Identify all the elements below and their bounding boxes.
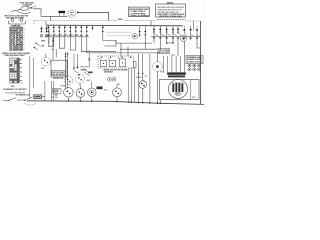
- relay coil dashed circles: [64, 76, 72, 84]
- dashed circle TB: [68, 10, 75, 17]
- drain valve wires: [139, 54, 143, 102]
- wire fuse to right: [29, 8, 41, 16]
- wire TB right, corner down: [77, 12, 109, 20]
- motor terminal box top right: [186, 56, 203, 64]
- svg-text:3 REPLACEMENT: 3 REPLACEMENT: [129, 14, 150, 17]
- wire to TCO: [41, 15, 67, 17]
- bottom bus: [27, 101, 204, 105]
- svg-text:MTR: MTR: [41, 40, 46, 42]
- svg-text:MOT: MOT: [176, 94, 179, 96]
- top bus L1: [46, 24, 183, 27]
- NOTE box 2: [156, 4, 186, 17]
- wires left of box: [80, 53, 89, 67]
- svg-text:NOTE: NOTE: [167, 3, 174, 5]
- svg-text:ASSEMBLY: ASSEMBLY: [104, 71, 114, 74]
- TCO bar: [59, 11, 66, 13]
- connector strip line under left pins: [45, 36, 90, 38]
- motor connector verticals: [164, 56, 185, 72]
- svg-text:DISP: DISP: [41, 68, 45, 70]
- wash solenoid dashed circle: [153, 62, 163, 72]
- dual element component: [11, 19, 14, 22]
- svg-text:TWS: TWS: [118, 19, 123, 21]
- svg-text:RINSE: RINSE: [61, 86, 66, 88]
- svg-text:RELAY SWITCH: RELAY SWITCH: [52, 73, 65, 76]
- svg-text:TO HEATER CKT: TO HEATER CKT: [16, 94, 31, 97]
- fuse F1: [11, 9, 21, 11]
- float switch dashed box: [98, 56, 134, 68]
- captions under table2: [3, 82, 27, 95]
- timer chart table 2: [4, 54, 25, 57]
- dotted control line: [33, 20, 35, 24]
- svg-text:CODE LIST NO: CODE LIST NO: [187, 62, 203, 64]
- right bus vertical: [199, 21, 201, 104]
- svg-text:SOL: SOL: [160, 72, 163, 74]
- svg-text:NO NC SET: NO NC SET: [159, 52, 171, 54]
- dispenser dashed circle: [45, 54, 47, 57]
- note text lines top-left: [5, 15, 29, 20]
- svg-text:L1: L1: [34, 6, 36, 8]
- left selector area: [34, 26, 50, 50]
- svg-text:TIMER SEQUENCE CHART: TIMER SEQUENCE CHART: [4, 54, 25, 57]
- pins row on bus: [47, 21, 200, 37]
- dotted sub-lines and timer motor circle: [107, 31, 132, 33]
- bottom-left heater area: [33, 95, 41, 99]
- svg-text:SERVICING THE MACHINE: SERVICING THE MACHINE: [159, 15, 183, 18]
- svg-text:PROTECTOR: PROTECTOR: [53, 78, 64, 80]
- svg-text:SWITCHES AS SHOWN: SWITCHES AS SHOWN: [6, 17, 24, 20]
- circle component right: [181, 36, 187, 42]
- legend tiny box: [158, 48, 170, 53]
- table 1 terminal codes: [11, 24, 21, 27]
- leader tick: [26, 6, 29, 8]
- thermal cutoff label: [20, 2, 34, 7]
- svg-text:SW: SW: [41, 46, 44, 48]
- bottom row circles: [64, 88, 74, 98]
- motor start relay box: [51, 60, 67, 77]
- motor box: [160, 80, 200, 100]
- svg-text:DRAIN: DRAIN: [136, 76, 142, 79]
- svg-text:SCHEMATIC OF CIRCUITS: SCHEMATIC OF CIRCUITS: [3, 88, 27, 91]
- middle mesh wires: [48, 34, 200, 90]
- NOTE box 1: [128, 7, 149, 16]
